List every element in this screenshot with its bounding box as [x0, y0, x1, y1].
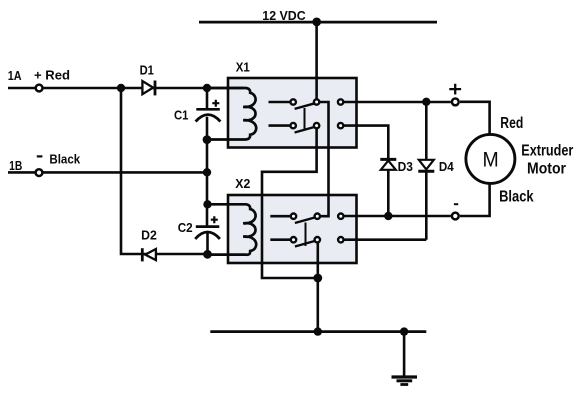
- svg-text:12 VDC: 12 VDC: [262, 8, 306, 23]
- svg-text:1B: 1B: [9, 158, 22, 173]
- svg-text:M: M: [483, 148, 499, 171]
- svg-text:D1: D1: [140, 62, 154, 77]
- svg-text:D4: D4: [439, 159, 454, 174]
- svg-text:C1: C1: [174, 107, 188, 122]
- svg-text:Red: Red: [500, 115, 523, 132]
- svg-text:X1: X1: [236, 60, 250, 75]
- svg-text:Black: Black: [499, 188, 534, 205]
- svg-text:Black: Black: [49, 152, 80, 167]
- svg-text:C2: C2: [178, 220, 193, 235]
- svg-text:1A: 1A: [8, 68, 22, 83]
- svg-text:+ Red: + Red: [34, 68, 70, 83]
- svg-text:D2: D2: [141, 228, 157, 243]
- svg-text:X2: X2: [235, 176, 250, 191]
- svg-text:Motor: Motor: [527, 160, 566, 177]
- svg-text:Extruder: Extruder: [521, 143, 573, 160]
- svg-text:D3: D3: [398, 159, 413, 174]
